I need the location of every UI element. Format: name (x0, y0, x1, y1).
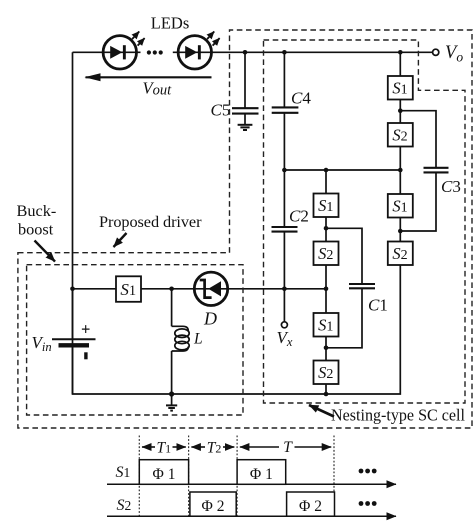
capacitor C4 (272, 107, 299, 112)
svg-text:L: L (193, 331, 203, 348)
MOSFET D (194, 272, 227, 305)
node C2/main rail (282, 287, 287, 292)
svg-text:C2: C2 (289, 207, 309, 226)
Nesting pointer arrow (309, 405, 334, 417)
wire C1 lower link (326, 288, 362, 348)
svg-text:Nesting-type SC cell: Nesting-type SC cell (331, 406, 465, 425)
wire C5 drop (244, 52, 246, 108)
switch S1 mid lower (314, 313, 339, 337)
wire C2 branch (283, 170, 285, 227)
capacitor C5 (232, 108, 259, 113)
svg-text:Proposed driver: Proposed driver (99, 212, 202, 231)
svg-text:Φ 1: Φ 1 (250, 466, 273, 483)
svg-text:T2: T2 (207, 440, 222, 457)
wire Vx stub (283, 289, 285, 322)
Buck-boost pointer arrow (35, 241, 56, 262)
switch S1 right lower (388, 194, 413, 218)
svg-text:Φ 1: Φ 1 (153, 466, 176, 483)
node left vertical/main rail (70, 287, 75, 292)
switch S2 mid lower (314, 361, 339, 385)
svg-text:C3: C3 (441, 177, 461, 196)
S1 pulse phi1 a (139, 460, 188, 485)
capacitor C1 (349, 284, 375, 288)
terminal Vx (281, 322, 287, 328)
node mid column/rail (324, 168, 329, 173)
node between S1/S2 right lower (398, 229, 403, 234)
svg-text:LEDs: LEDs (151, 14, 190, 33)
switch S1 right upper (388, 76, 413, 100)
svg-text:Φ 2: Φ 2 (202, 498, 225, 515)
terminal Vo (433, 49, 439, 55)
wire right column segments (399, 52, 401, 241)
S1 pulse phi1 b (237, 460, 286, 485)
wire C2 to main rail (283, 232, 285, 289)
S2 pulse phi2 b (287, 492, 335, 516)
svg-text:C1: C1 (368, 296, 388, 315)
switch S2 right lower (388, 242, 413, 266)
dimension arrow T1 (142, 446, 155, 448)
svg-text:T: T (283, 439, 293, 456)
Proposed driver pointer arrow (114, 233, 127, 247)
node mid column/bottom rail (324, 392, 329, 397)
capacitor C3 (424, 168, 449, 173)
wire C3 lower link (400, 172, 436, 231)
S1 row dots (359, 469, 377, 474)
node between S1/S2 mid lower (324, 346, 329, 351)
svg-text:S1: S1 (116, 464, 131, 481)
node between S1/S2 right upper (398, 108, 403, 113)
S1 baseline with arrow (107, 483, 396, 485)
S2 pulse phi2 a (190, 492, 236, 516)
wire C3 upper link (400, 111, 436, 168)
dashed box: buck-boost outline (27, 265, 243, 415)
svg-text:T1: T1 (156, 440, 171, 457)
switch S1 mid upper (314, 194, 339, 218)
wire inductor branch upper (171, 289, 173, 327)
wire: top rail right part (173, 51, 433, 53)
node C4/rail (282, 168, 287, 173)
node dots between LEDs (147, 50, 163, 54)
wire: top rail y=52.3 from left corner to Vo terminal (73, 51, 141, 53)
wire C1 upper link (326, 228, 362, 284)
svg-text:S2: S2 (117, 497, 132, 514)
wire: bottom rail y=394 (73, 265, 401, 394)
LED diode D2 (178, 32, 220, 70)
wire inductor branch lower (171, 351, 173, 394)
svg-text:Buck-: Buck- (17, 201, 57, 220)
wire: SC mid rail y=170 (284, 169, 400, 171)
inductor L (172, 326, 190, 351)
node mid column/main rail (324, 287, 329, 292)
svg-text:D: D (203, 309, 217, 329)
svg-text:S1: S1 (120, 280, 136, 299)
svg-text:C5: C5 (211, 101, 231, 120)
Vout arrow (86, 76, 212, 78)
node on top rail for C5 (243, 50, 248, 55)
LED diode D1 (103, 32, 145, 70)
switch S1 buck-boost (116, 276, 141, 302)
node inductor/bottom rail (169, 391, 174, 396)
node between S1/S2 mid upper (324, 226, 329, 231)
dashed box: nesting-type SC cell outline (264, 40, 466, 403)
wire C4 drop (283, 52, 285, 107)
S2 row dots (359, 501, 377, 506)
svg-text:C4: C4 (291, 89, 311, 108)
dimension arrow T2 (191, 446, 205, 448)
S2 baseline with arrow (107, 515, 396, 517)
wire mid column segments (325, 170, 327, 394)
ground under C5 (238, 114, 253, 130)
wire: left drop (72, 52, 74, 288)
capacitor C2 (272, 227, 298, 232)
dimension arrow T (240, 446, 279, 448)
ground (166, 394, 177, 411)
dashed box: proposed driver outline (18, 30, 472, 428)
svg-text:Φ 2: Φ 2 (299, 498, 322, 515)
wire C4 to mid rail (283, 113, 285, 170)
node inductor branch/main rail (169, 287, 174, 292)
switch S2 right upper (388, 123, 413, 147)
svg-text:+: + (81, 320, 90, 339)
node right column/top rail (398, 50, 403, 55)
battery Vin (52, 289, 96, 394)
dotted guide lines (139, 436, 334, 517)
switch S2 mid upper (314, 242, 339, 266)
wire: main middle rail y=288.8 (73, 288, 327, 290)
node on top rail for C4 (282, 50, 287, 55)
node right column/rail (398, 168, 403, 173)
svg-text:boost: boost (18, 220, 54, 239)
